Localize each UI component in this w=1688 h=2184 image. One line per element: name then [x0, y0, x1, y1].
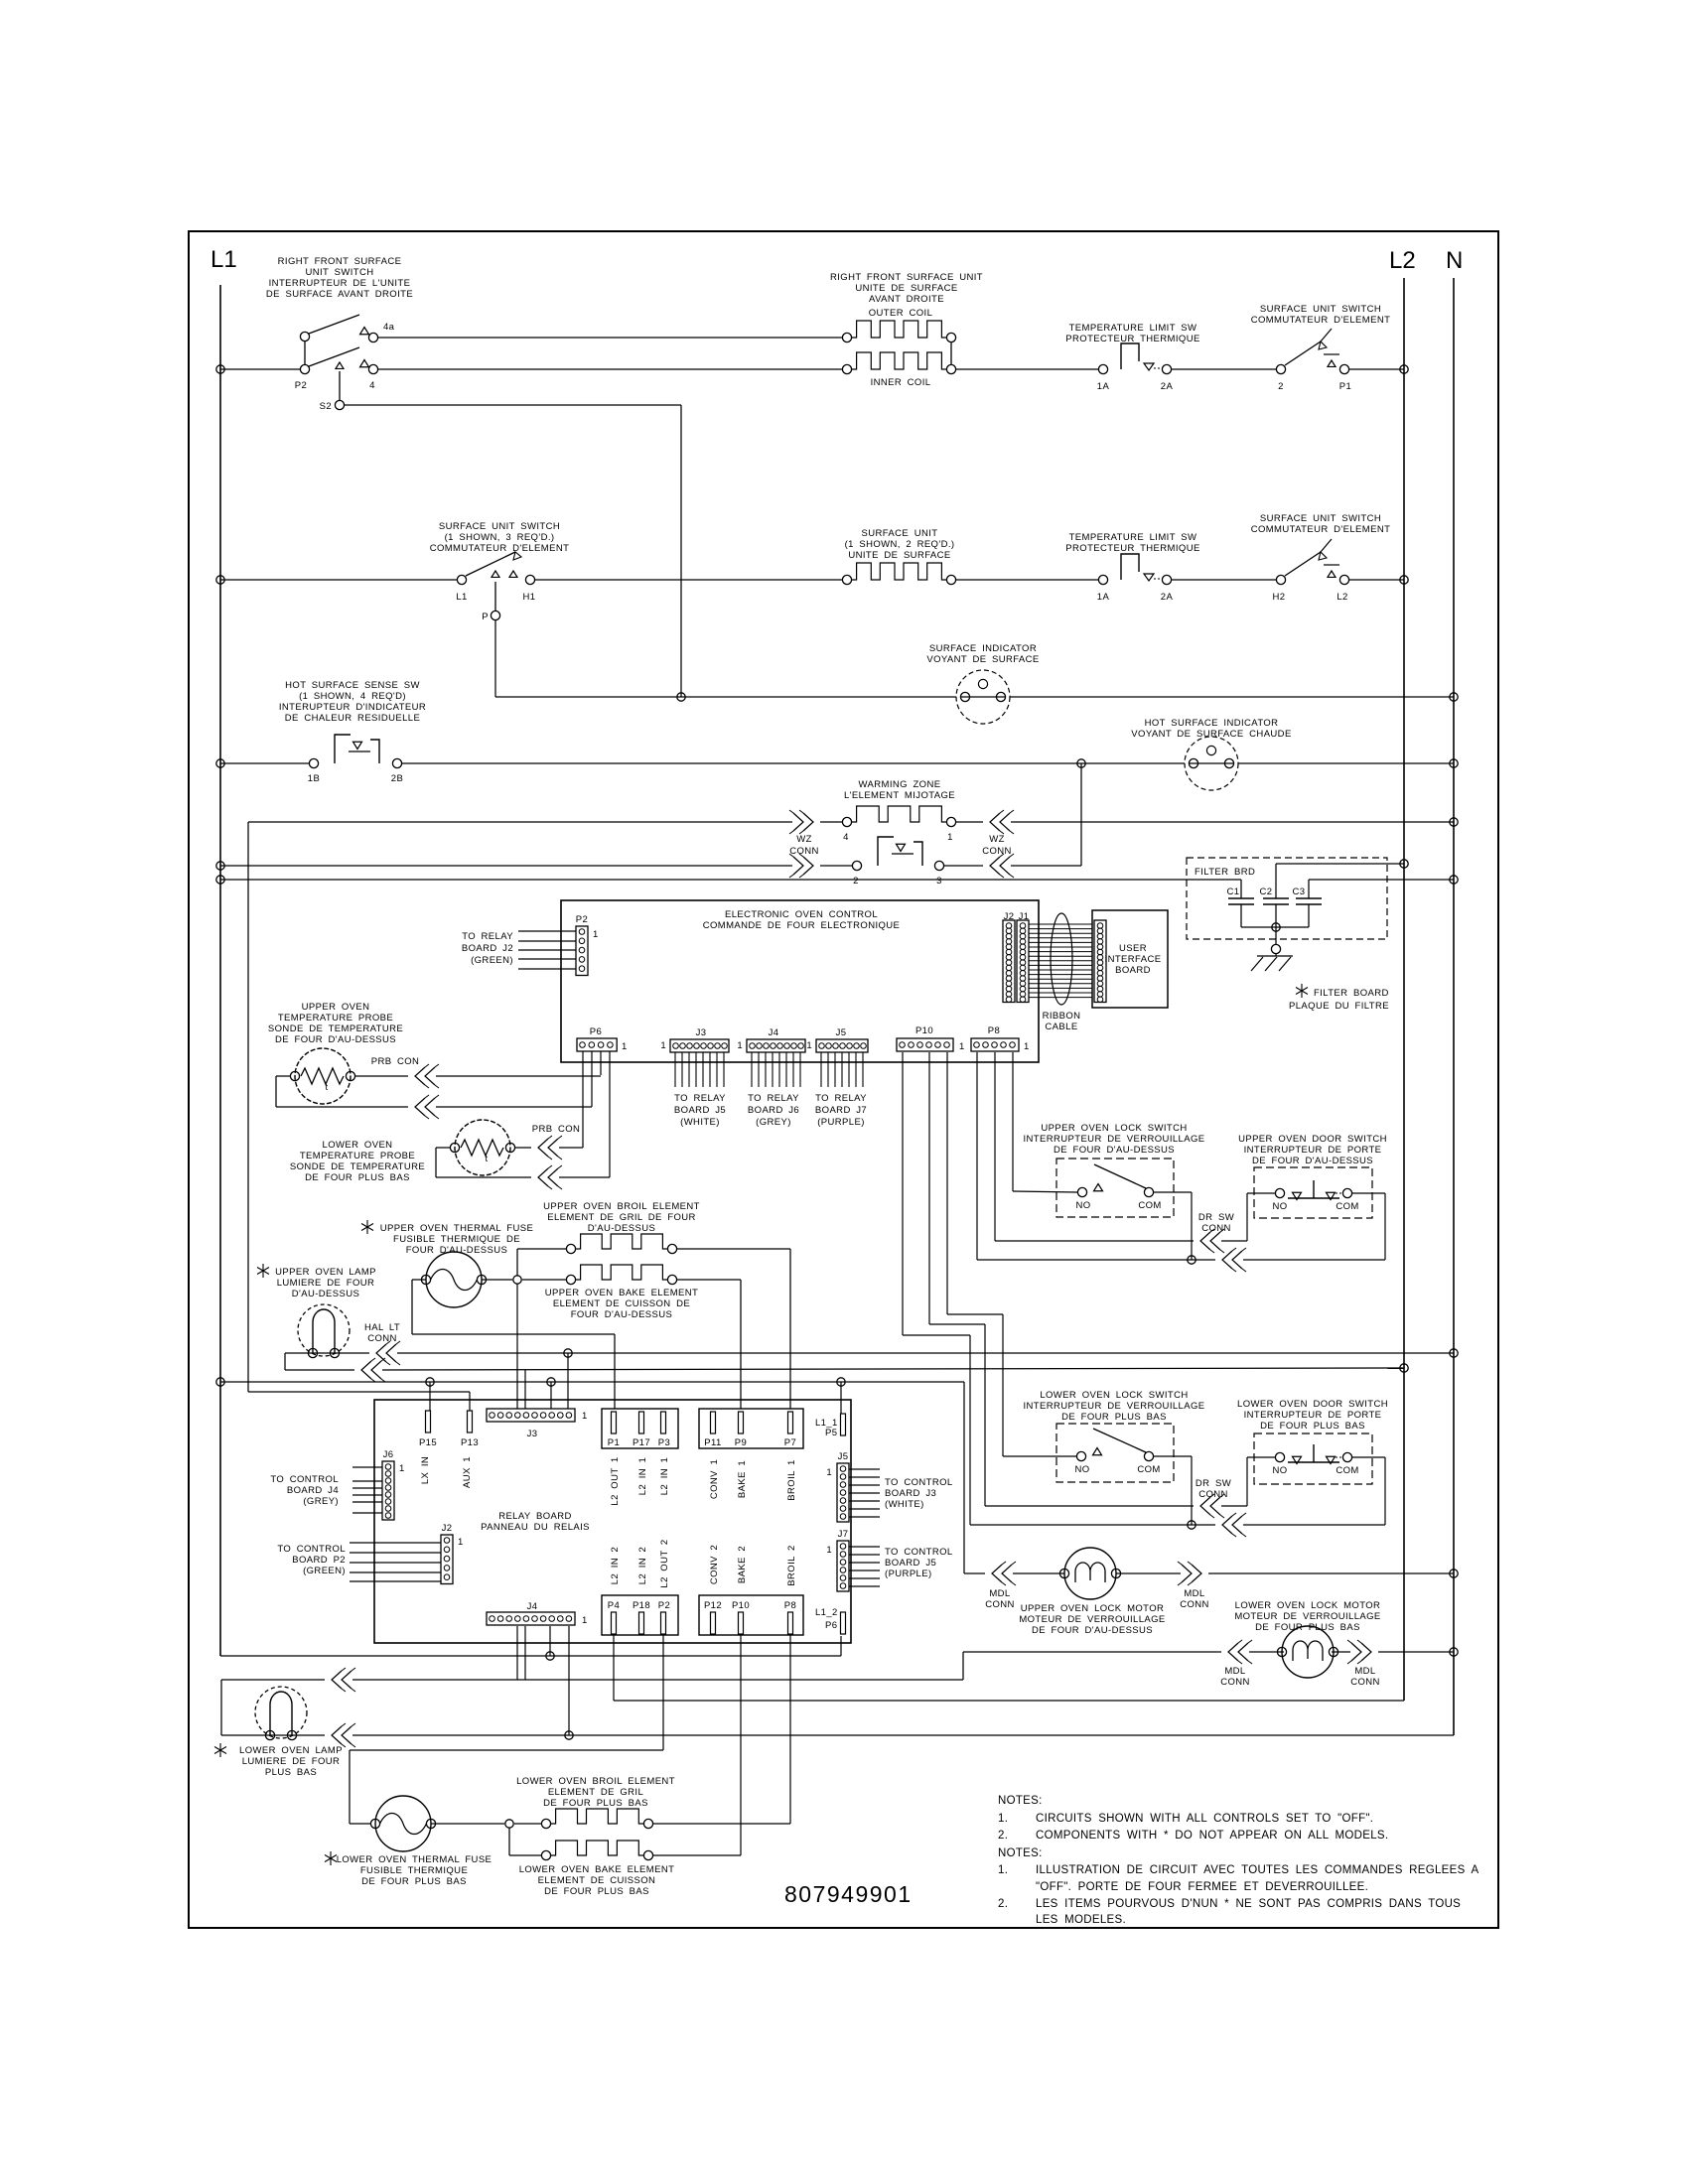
wire L1 to warming zone switch: [216, 862, 224, 870]
svg-text:P13: P13: [461, 1437, 479, 1448]
svg-text:LOWER OVEN LOCK SWITCH: LOWER OVEN LOCK SWITCH: [1040, 1390, 1188, 1401]
svg-text:UNITE DE SURFACE: UNITE DE SURFACE: [855, 283, 957, 294]
op-box relay board: [374, 1400, 851, 1643]
svg-text:COMMUTATEUR D'ELEMENT: COMMUTATEUR D'ELEMENT: [1251, 315, 1391, 326]
svg-text:NO: NO: [1074, 1464, 1089, 1475]
svg-text:RELAY BOARD: RELAY BOARD: [498, 1511, 572, 1522]
wire P2 relay to lower fuse: [662, 1635, 664, 1750]
wire P down and across to N (surface indicator line): [494, 620, 496, 697]
svg-text:TO CONTROL: TO CONTROL: [885, 1547, 953, 1558]
svg-text:LOWER OVEN BROIL ELEMENT: LOWER OVEN BROIL ELEMENT: [516, 1776, 675, 1787]
svg-text:SURFACE INDICATOR: SURFACE INDICATOR: [929, 643, 1037, 654]
connector J3 (EOC): [670, 1039, 729, 1052]
svg-text:BROIL 2: BROIL 2: [786, 1545, 797, 1585]
svg-text:SURFACE UNIT SWITCH: SURFACE UNIT SWITCH: [1260, 513, 1381, 524]
svg-text:S2: S2: [320, 401, 332, 412]
svg-text:INTERRUPTEUR DE L'UNITE: INTERRUPTEUR DE L'UNITE: [269, 278, 411, 289]
wire P8 pin to upper door NO line: [994, 1052, 996, 1241]
svg-text:SURFACE UNIT SWITCH: SURFACE UNIT SWITCH: [439, 521, 560, 532]
svg-text:BROIL 1: BROIL 1: [786, 1459, 797, 1500]
wire broil element to P7 relay: [677, 1248, 790, 1250]
svg-text:CONN: CONN: [789, 846, 819, 857]
svg-text:(GREEN): (GREEN): [303, 1566, 346, 1576]
svg-text:P12: P12: [704, 1600, 722, 1611]
connector P4 P18 P2: [602, 1595, 678, 1635]
svg-text:BOARD J5: BOARD J5: [674, 1105, 726, 1116]
wire L1 to lock motor feed: [216, 1378, 224, 1386]
svg-text:t: t: [485, 1154, 488, 1164]
wire leads to P2 green: [518, 930, 576, 932]
wire capacitor common: [1241, 926, 1309, 928]
motor upper oven lock motor: [1064, 1548, 1116, 1599]
wires P6 pins down: [582, 1051, 584, 1144]
svg-text:1: 1: [399, 1463, 405, 1474]
switch surface unit switch (2/P1) row1: [1276, 364, 1285, 373]
svg-text:BOARD J6: BOARD J6: [748, 1105, 799, 1116]
svg-text:DE FOUR D'AU-DESSUS: DE FOUR D'AU-DESSUS: [1054, 1145, 1175, 1156]
svg-text:NO: NO: [1272, 1465, 1287, 1476]
svg-text:P10: P10: [915, 1025, 933, 1036]
svg-text:INTERFACE: INTERFACE: [1105, 954, 1162, 965]
connector MDL CONN left (lower motor): [963, 1651, 1221, 1653]
wire J4 pin down to lower lamp return: [568, 1626, 570, 1735]
ribbon cable: [1029, 923, 1092, 925]
svg-text:P5: P5: [825, 1428, 837, 1438]
svg-text:P1: P1: [1339, 381, 1351, 392]
svg-text:(GREY): (GREY): [756, 1117, 791, 1128]
wire to upper door NO: [1221, 1240, 1247, 1242]
svg-text:P3: P3: [658, 1437, 670, 1448]
svg-text:CONN: CONN: [1198, 1489, 1228, 1500]
svg-text:BOARD P2: BOARD P2: [292, 1555, 346, 1566]
svg-text:USER: USER: [1119, 943, 1147, 954]
svg-text:4: 4: [369, 380, 375, 391]
svg-text:PROTECTEUR THERMIQUE: PROTECTEUR THERMIQUE: [1065, 334, 1199, 344]
svg-text:FOUR D'AU-DESSUS: FOUR D'AU-DESSUS: [571, 1309, 673, 1320]
svg-text:P2: P2: [576, 914, 588, 925]
svg-text:UPPER OVEN LAMP: UPPER OVEN LAMP: [275, 1267, 376, 1278]
svg-text:FOUR D'AU-DESSUS: FOUR D'AU-DESSUS: [406, 1245, 508, 1256]
svg-text:P8: P8: [784, 1600, 796, 1611]
svg-text:LES ITEMS POURVOUS D'NUN * NE: LES ITEMS POURVOUS D'NUN * NE SONT PAS C…: [1036, 1898, 1461, 1910]
svg-text:HOT SURFACE SENSE SW: HOT SURFACE SENSE SW: [285, 680, 420, 691]
svg-text:BOARD J5: BOARD J5: [885, 1558, 936, 1569]
lamp lower oven halogen lamp: [255, 1687, 307, 1738]
pin P15: [426, 1411, 431, 1433]
connector MDL CONN right (upper motor): [1116, 1572, 1181, 1574]
connector J5 (EOC): [816, 1039, 868, 1052]
svg-text:J3: J3: [527, 1429, 538, 1439]
svg-text:INTERRUPTEUR DE PORTE: INTERRUPTEUR DE PORTE: [1244, 1145, 1382, 1156]
svg-text:DE FOUR PLUS BAS: DE FOUR PLUS BAS: [544, 1886, 649, 1897]
svg-text:D'AU-DESSUS: D'AU-DESSUS: [588, 1223, 656, 1234]
svg-text:L1_2: L1_2: [815, 1607, 838, 1618]
wire junction up to broil element: [516, 1249, 518, 1276]
wire S2 to node under indicator: [345, 404, 681, 406]
connector P1 P17 P3: [602, 1409, 678, 1448]
svg-text:DE FOUR PLUS BAS: DE FOUR PLUS BAS: [1260, 1421, 1365, 1432]
svg-text:UPPER OVEN DOOR SWITCH: UPPER OVEN DOOR SWITCH: [1238, 1134, 1387, 1145]
label filter board: [1301, 984, 1303, 998]
wire L1 to N long line y=886: [216, 876, 224, 884]
svg-text:1: 1: [593, 929, 599, 940]
svg-text:1B: 1B: [308, 773, 320, 784]
svg-text:L2: L2: [1336, 592, 1347, 603]
connector MDL CONN left (upper motor): [964, 1572, 985, 1574]
svg-text:LES MODELES.: LES MODELES.: [1036, 1914, 1126, 1926]
svg-text:MDL: MDL: [1224, 1666, 1245, 1677]
svg-text:DE FOUR PLUS BAS: DE FOUR PLUS BAS: [305, 1172, 410, 1183]
svg-text:P4: P4: [608, 1600, 620, 1611]
resistor upper oven broil element: [566, 1244, 575, 1253]
capacitor C2: [1263, 897, 1289, 899]
wire lamp line step up to motor line: [962, 1652, 964, 1680]
wire probe bottom loop: [276, 1075, 290, 1077]
svg-text:L1: L1: [211, 246, 237, 273]
wire J4 pins down to lamp line: [516, 1626, 518, 1680]
svg-text:L2 OUT 1: L2 OUT 1: [610, 1456, 621, 1505]
svg-text:LOWER OVEN: LOWER OVEN: [323, 1140, 393, 1151]
svg-text:UPPER OVEN THERMAL FUSE: UPPER OVEN THERMAL FUSE: [380, 1223, 533, 1234]
svg-text:COM: COM: [1137, 1464, 1160, 1475]
wire J3 relay pin up to lamp line: [567, 1353, 569, 1409]
svg-text:ELEMENT DE GRIL DE FOUR: ELEMENT DE GRIL DE FOUR: [547, 1212, 696, 1223]
svg-text:BAKE 2: BAKE 2: [737, 1546, 748, 1583]
switch hot surface sense SW (1B/2B): [309, 758, 318, 767]
svg-text:"OFF". PORTE DE FOUR FERMEE ET: "OFF". PORTE DE FOUR FERMEE ET DEVERROUI…: [1036, 1881, 1368, 1893]
switch lower oven lock switch (NO/COM): [1056, 1424, 1174, 1482]
svg-text:FUSIBLE THERMIQUE DE: FUSIBLE THERMIQUE DE: [393, 1234, 520, 1245]
svg-text:1: 1: [806, 1040, 812, 1051]
svg-text:(GREEN): (GREEN): [471, 955, 513, 966]
svg-text:FILTER BRD: FILTER BRD: [1195, 867, 1255, 878]
svg-text:UPPER OVEN LOCK MOTOR: UPPER OVEN LOCK MOTOR: [1021, 1603, 1165, 1614]
svg-text:MDL: MDL: [1184, 1588, 1204, 1599]
svg-text:VOYANT DE SURFACE: VOYANT DE SURFACE: [926, 654, 1039, 665]
resistor lower oven broil element: [514, 1823, 541, 1825]
svg-text:2A: 2A: [1161, 592, 1174, 603]
svg-text:ELEMENT DE GRIL: ELEMENT DE GRIL: [548, 1787, 643, 1798]
svg-text:J4: J4: [769, 1027, 779, 1038]
wire P4 down to L2 bottom: [613, 1635, 615, 1701]
svg-text:P6: P6: [590, 1026, 602, 1037]
switch warming zone sense sw (2/3): [852, 861, 861, 870]
wire P1 to L2 bus: [1349, 368, 1404, 370]
svg-text:(1 SHOWN, 4 REQ'D): (1 SHOWN, 4 REQ'D): [299, 691, 406, 702]
wire: border frame is decorative: [189, 231, 1498, 1928]
svg-text:TEMPERATURE LIMIT SW: TEMPERATURE LIMIT SW: [1069, 532, 1197, 543]
svg-text:FUSIBLE THERMIQUE: FUSIBLE THERMIQUE: [360, 1865, 468, 1876]
svg-text:PRB CON: PRB CON: [532, 1124, 581, 1135]
wire H1 to surface unit coil: [535, 579, 842, 581]
svg-text:LOWER OVEN DOOR SWITCH: LOWER OVEN DOOR SWITCH: [1237, 1399, 1388, 1410]
op-box user interface board: [1092, 910, 1168, 1008]
wire fuse to junction: [431, 1823, 504, 1825]
wire warming-zone drop to P13: [247, 822, 249, 1392]
wire P8 pin to upper lock NO: [1012, 1052, 1014, 1191]
wire lamp top line to motor step: [221, 1679, 325, 1681]
svg-text:P17: P17: [633, 1437, 650, 1448]
svg-text:1.: 1.: [998, 1864, 1008, 1876]
svg-text:CONN: CONN: [982, 846, 1012, 857]
wire fuse left to P1 relay: [412, 1279, 426, 1281]
svg-text:1: 1: [582, 1411, 588, 1422]
resistor surface unit element: [842, 575, 851, 584]
svg-text:VOYANT DE SURFACE CHAUDE: VOYANT DE SURFACE CHAUDE: [1131, 729, 1291, 740]
svg-text:ELEMENT DE CUISSON: ELEMENT DE CUISSON: [538, 1875, 656, 1886]
svg-text:P9: P9: [735, 1437, 747, 1448]
svg-text:HOT SURFACE INDICATOR: HOT SURFACE INDICATOR: [1145, 718, 1279, 729]
wire 4 contact to inner coil: [377, 368, 842, 370]
svg-text:UNITE DE SURFACE: UNITE DE SURFACE: [848, 550, 950, 561]
svg-text:COMMUTATEUR D'ELEMENT: COMMUTATEUR D'ELEMENT: [1251, 524, 1391, 535]
switch surface unit switch (L1/H1/P): [457, 575, 466, 584]
svg-text:AUX 1: AUX 1: [462, 1456, 473, 1488]
svg-text:2B: 2B: [391, 773, 403, 784]
svg-text:TEMPERATURE LIMIT SW: TEMPERATURE LIMIT SW: [1069, 323, 1197, 334]
connector P6 (EOC): [577, 1038, 617, 1051]
svg-text:ELECTRONIC OVEN CONTROL: ELECTRONIC OVEN CONTROL: [725, 909, 878, 920]
svg-text:L2 IN 1: L2 IN 1: [659, 1457, 670, 1495]
switch surface unit switch (H2/L2) row2: [1276, 575, 1285, 584]
svg-text:DE FOUR D'AU-DESSUS: DE FOUR D'AU-DESSUS: [1032, 1625, 1153, 1636]
lamp upper oven halogen lamp: [298, 1304, 350, 1356]
wire branch down from indicator line: [1077, 759, 1085, 767]
svg-text:1: 1: [959, 1041, 965, 1052]
svg-text:CONV 1: CONV 1: [709, 1459, 720, 1499]
fuse lower oven thermal fuse: [375, 1796, 431, 1851]
svg-text:CONN: CONN: [1180, 1599, 1209, 1610]
svg-text:TO RELAY: TO RELAY: [674, 1093, 726, 1104]
svg-text:NOTES:: NOTES:: [998, 1847, 1043, 1859]
svg-text:P15: P15: [419, 1437, 437, 1448]
svg-text:DE FOUR PLUS BAS: DE FOUR PLUS BAS: [1255, 1622, 1360, 1633]
capacitor C1: [1240, 880, 1242, 898]
svg-text:RIGHT FRONT SURFACE UNIT: RIGHT FRONT SURFACE UNIT: [830, 272, 983, 283]
svg-text:1: 1: [826, 1467, 832, 1478]
svg-text:1A: 1A: [1097, 592, 1110, 603]
svg-text:P2: P2: [658, 1600, 670, 1611]
svg-text:H2: H2: [1273, 592, 1286, 603]
svg-text:OUTER COIL: OUTER COIL: [869, 308, 933, 319]
svg-text:TO CONTROL: TO CONTROL: [885, 1477, 953, 1488]
wire P10 relay down to bake element: [740, 1635, 742, 1855]
svg-text:WZ: WZ: [989, 834, 1005, 845]
svg-text:t: t: [325, 1082, 328, 1093]
svg-text:MOTEUR DE VERROUILLAGE: MOTEUR DE VERROUILLAGE: [1234, 1611, 1380, 1622]
fuse upper oven thermal fuse: [426, 1252, 482, 1307]
wire 4a contact to outer coil: [377, 337, 842, 339]
svg-text:N: N: [1446, 247, 1463, 274]
svg-text:(1 SHOWN, 2 REQ'D.): (1 SHOWN, 2 REQ'D.): [845, 539, 955, 550]
wire L1 to switch P2: [216, 365, 224, 373]
svg-text:TEMPERATURE PROBE: TEMPERATURE PROBE: [278, 1013, 393, 1024]
svg-text:HAL LT: HAL LT: [364, 1322, 400, 1333]
svg-text:SURFACE UNIT: SURFACE UNIT: [862, 528, 938, 539]
wire P10 pin to lower door COM line: [902, 1052, 904, 1335]
svg-text:(WHITE): (WHITE): [885, 1499, 924, 1510]
svg-text:ILLUSTRATION DE CIRCUIT AVEC T: ILLUSTRATION DE CIRCUIT AVEC TOUTES LES …: [1036, 1864, 1478, 1876]
svg-text:DE CHALEUR RESIDUELLE: DE CHALEUR RESIDUELLE: [285, 713, 420, 724]
switch upper oven lock switch (NO/COM): [1056, 1159, 1174, 1217]
svg-text:FILTER BOARD: FILTER BOARD: [1314, 988, 1389, 999]
connector J3 (relay): [487, 1409, 575, 1422]
svg-text:4a: 4a: [383, 322, 395, 333]
svg-text:WARMING ZONE: WARMING ZONE: [859, 779, 941, 790]
svg-text:807949901: 807949901: [784, 1881, 913, 1907]
connector DR SW CONN upper: [1210, 1232, 1220, 1250]
resistor outer coil (right front surface unit): [842, 333, 851, 341]
svg-text:J5: J5: [838, 1451, 849, 1462]
wire upper lock COM to junction: [1154, 1191, 1192, 1193]
svg-text:1: 1: [622, 1041, 628, 1052]
svg-text:P2: P2: [295, 380, 307, 391]
wire lower probe bottom loop: [436, 1147, 450, 1149]
svg-text:J3: J3: [696, 1027, 707, 1038]
connector J4 (EOC): [747, 1039, 805, 1052]
svg-text:COMPONENTS WITH * DO NOT APPEA: COMPONENTS WITH * DO NOT APPEAR ON ALL M…: [1036, 1830, 1388, 1842]
svg-text:P6: P6: [825, 1620, 837, 1631]
svg-text:L2 IN 2: L2 IN 2: [610, 1547, 621, 1584]
wire to upper door COM: [1243, 1259, 1385, 1261]
wire L1 to surface unit switch row2: [216, 576, 224, 584]
connector J6 (relay): [382, 1461, 394, 1520]
svg-text:RIGHT FRONT SURFACE: RIGHT FRONT SURFACE: [278, 256, 402, 267]
svg-text:CONV 2: CONV 2: [709, 1545, 720, 1584]
svg-text:TO RELAY: TO RELAY: [462, 931, 513, 942]
svg-text:DE FOUR D'AU-DESSUS: DE FOUR D'AU-DESSUS: [1252, 1156, 1373, 1166]
wire 2A to surface unit switch row2: [1172, 579, 1276, 581]
svg-text:COM: COM: [1336, 1201, 1358, 1212]
svg-text:DE SURFACE AVANT DROITE: DE SURFACE AVANT DROITE: [266, 289, 413, 300]
svg-text:NO: NO: [1272, 1201, 1287, 1212]
svg-text:C3: C3: [1293, 887, 1306, 897]
svg-text:UNIT SWITCH: UNIT SWITCH: [306, 267, 374, 278]
svg-text:1: 1: [737, 1040, 743, 1051]
svg-text:INTERUPTEUR D'INDICATEUR: INTERUPTEUR D'INDICATEUR: [279, 702, 426, 713]
svg-text:SURFACE UNIT SWITCH: SURFACE UNIT SWITCH: [1260, 304, 1381, 315]
svg-text:COM: COM: [1336, 1465, 1358, 1476]
wire P10 pin to lower door NO line: [928, 1052, 930, 1324]
svg-text:3: 3: [936, 876, 942, 887]
wire lower lock COM to junction: [1154, 1455, 1192, 1457]
resistor upper oven bake element: [566, 1275, 575, 1284]
svg-text:PRB CON: PRB CON: [371, 1056, 420, 1067]
svg-text:NOTES:: NOTES:: [998, 1795, 1043, 1807]
wire lower lock NO lead-in: [1003, 1455, 1076, 1457]
svg-text:CONN: CONN: [985, 1599, 1015, 1610]
svg-text:UPPER OVEN BROIL ELEMENT: UPPER OVEN BROIL ELEMENT: [543, 1201, 700, 1212]
svg-text:LOWER OVEN BAKE ELEMENT: LOWER OVEN BAKE ELEMENT: [519, 1864, 675, 1875]
wire lower probe top to P6: [515, 1147, 531, 1149]
switch upper oven door switch (NO/COM): [1254, 1167, 1372, 1218]
svg-text:SONDE DE TEMPERATURE: SONDE DE TEMPERATURE: [268, 1024, 403, 1034]
resistor upper oven temperature probe: [295, 1048, 351, 1104]
svg-text:(WHITE): (WHITE): [680, 1117, 720, 1128]
svg-text:J2: J2: [442, 1523, 453, 1534]
svg-text:LUMIERE DE FOUR: LUMIERE DE FOUR: [277, 1278, 375, 1289]
wire lamp hook: [284, 1353, 286, 1370]
connector J5 (relay): [837, 1463, 849, 1522]
wire bake element to P9 relay: [677, 1279, 741, 1281]
wire junction to bake element: [522, 1279, 566, 1281]
wire L2 contact to L2 bus: [1349, 579, 1404, 581]
resistor lower oven temperature probe: [455, 1120, 510, 1175]
wire L1 bottom line to P6 pin: [220, 1655, 841, 1657]
connector P10 (EOC): [897, 1038, 953, 1051]
connector J4 (relay): [487, 1612, 575, 1625]
svg-text:L'ELEMENT MIJOTAGE: L'ELEMENT MIJOTAGE: [844, 790, 955, 801]
svg-text:PLAQUE DU FILTRE: PLAQUE DU FILTRE: [1289, 1001, 1389, 1012]
svg-text:BAKE 1: BAKE 1: [737, 1460, 748, 1498]
svg-text:2.: 2.: [998, 1898, 1008, 1910]
wire fuse right to junction: [482, 1279, 512, 1281]
svg-text:MDL: MDL: [989, 1588, 1010, 1599]
svg-text:L2 IN 2: L2 IN 2: [637, 1547, 648, 1584]
pin P13: [468, 1411, 473, 1433]
resistor inner coil: [842, 364, 851, 373]
wire P8 relay down to broil element: [789, 1635, 791, 1824]
svg-text:(PURPLE): (PURPLE): [885, 1569, 932, 1579]
wire indicator to N bus: [1010, 696, 1454, 698]
svg-text:L2: L2: [1389, 247, 1416, 274]
connector J7 (relay): [837, 1541, 849, 1591]
svg-text:TO RELAY: TO RELAY: [815, 1093, 867, 1104]
switch temperature limit SW (1A/2A) row1: [1098, 364, 1107, 373]
svg-text:L1: L1: [456, 592, 467, 603]
connector DR SW CONN lower: [1210, 1497, 1220, 1515]
svg-text:4: 4: [843, 832, 849, 843]
svg-text:J4: J4: [527, 1601, 538, 1612]
wire 2B to hot surface indicator: [402, 762, 1185, 764]
svg-text:COM: COM: [1138, 1200, 1161, 1211]
wire hot surface indicator to N bus: [1238, 762, 1454, 764]
connector P8 (EOC): [971, 1038, 1019, 1051]
svg-text:1: 1: [660, 1040, 666, 1051]
svg-text:NO: NO: [1075, 1200, 1090, 1211]
wire P10 pin to lower lock NO: [946, 1052, 948, 1314]
connector J2 (relay): [441, 1535, 453, 1584]
svg-text:COMMANDE DE FOUR ELECTRONIQUE: COMMANDE DE FOUR ELECTRONIQUE: [703, 920, 901, 931]
filter board dashed box FILTER BRD: [1187, 858, 1387, 939]
svg-text:(GREY): (GREY): [303, 1496, 339, 1507]
svg-text:BOARD J7: BOARD J7: [815, 1105, 867, 1116]
svg-text:P8: P8: [988, 1025, 1000, 1036]
svg-text:LOWER OVEN LOCK MOTOR: LOWER OVEN LOCK MOTOR: [1235, 1600, 1381, 1611]
wire junction down to bake element: [508, 1828, 510, 1855]
svg-text:1: 1: [458, 1537, 464, 1548]
svg-text:INTERRUPTEUR DE VERROUILLAGE: INTERRUPTEUR DE VERROUILLAGE: [1023, 1134, 1204, 1145]
resistor lower oven bake element: [541, 1850, 550, 1859]
wire P8 pin to upper door COM line: [976, 1052, 978, 1260]
svg-text:UPPER OVEN LOCK SWITCH: UPPER OVEN LOCK SWITCH: [1041, 1123, 1187, 1134]
svg-text:BOARD J3: BOARD J3: [885, 1488, 936, 1499]
svg-text:H1: H1: [523, 592, 536, 603]
svg-text:PLUS BAS: PLUS BAS: [265, 1767, 317, 1778]
svg-text:P: P: [482, 612, 489, 622]
lamp hot surface indicator: [1185, 737, 1238, 790]
lamp surface indicator: [956, 670, 1010, 724]
svg-text:PROTECTEUR THERMIQUE: PROTECTEUR THERMIQUE: [1065, 543, 1199, 554]
svg-text:ELEMENT DE CUISSON DE: ELEMENT DE CUISSON DE: [553, 1298, 690, 1309]
switch temperature limit SW (1A/2A) row2: [1098, 575, 1107, 584]
connector P12 P10 P8: [699, 1595, 803, 1635]
svg-text:AVANT DROITE: AVANT DROITE: [869, 294, 944, 305]
svg-text:INTERRUPTEUR DE PORTE: INTERRUPTEUR DE PORTE: [1244, 1410, 1382, 1421]
svg-text:P11: P11: [704, 1437, 721, 1448]
wire to lower door COM: [970, 1524, 1215, 1526]
wire lamp hook: [220, 1680, 222, 1735]
